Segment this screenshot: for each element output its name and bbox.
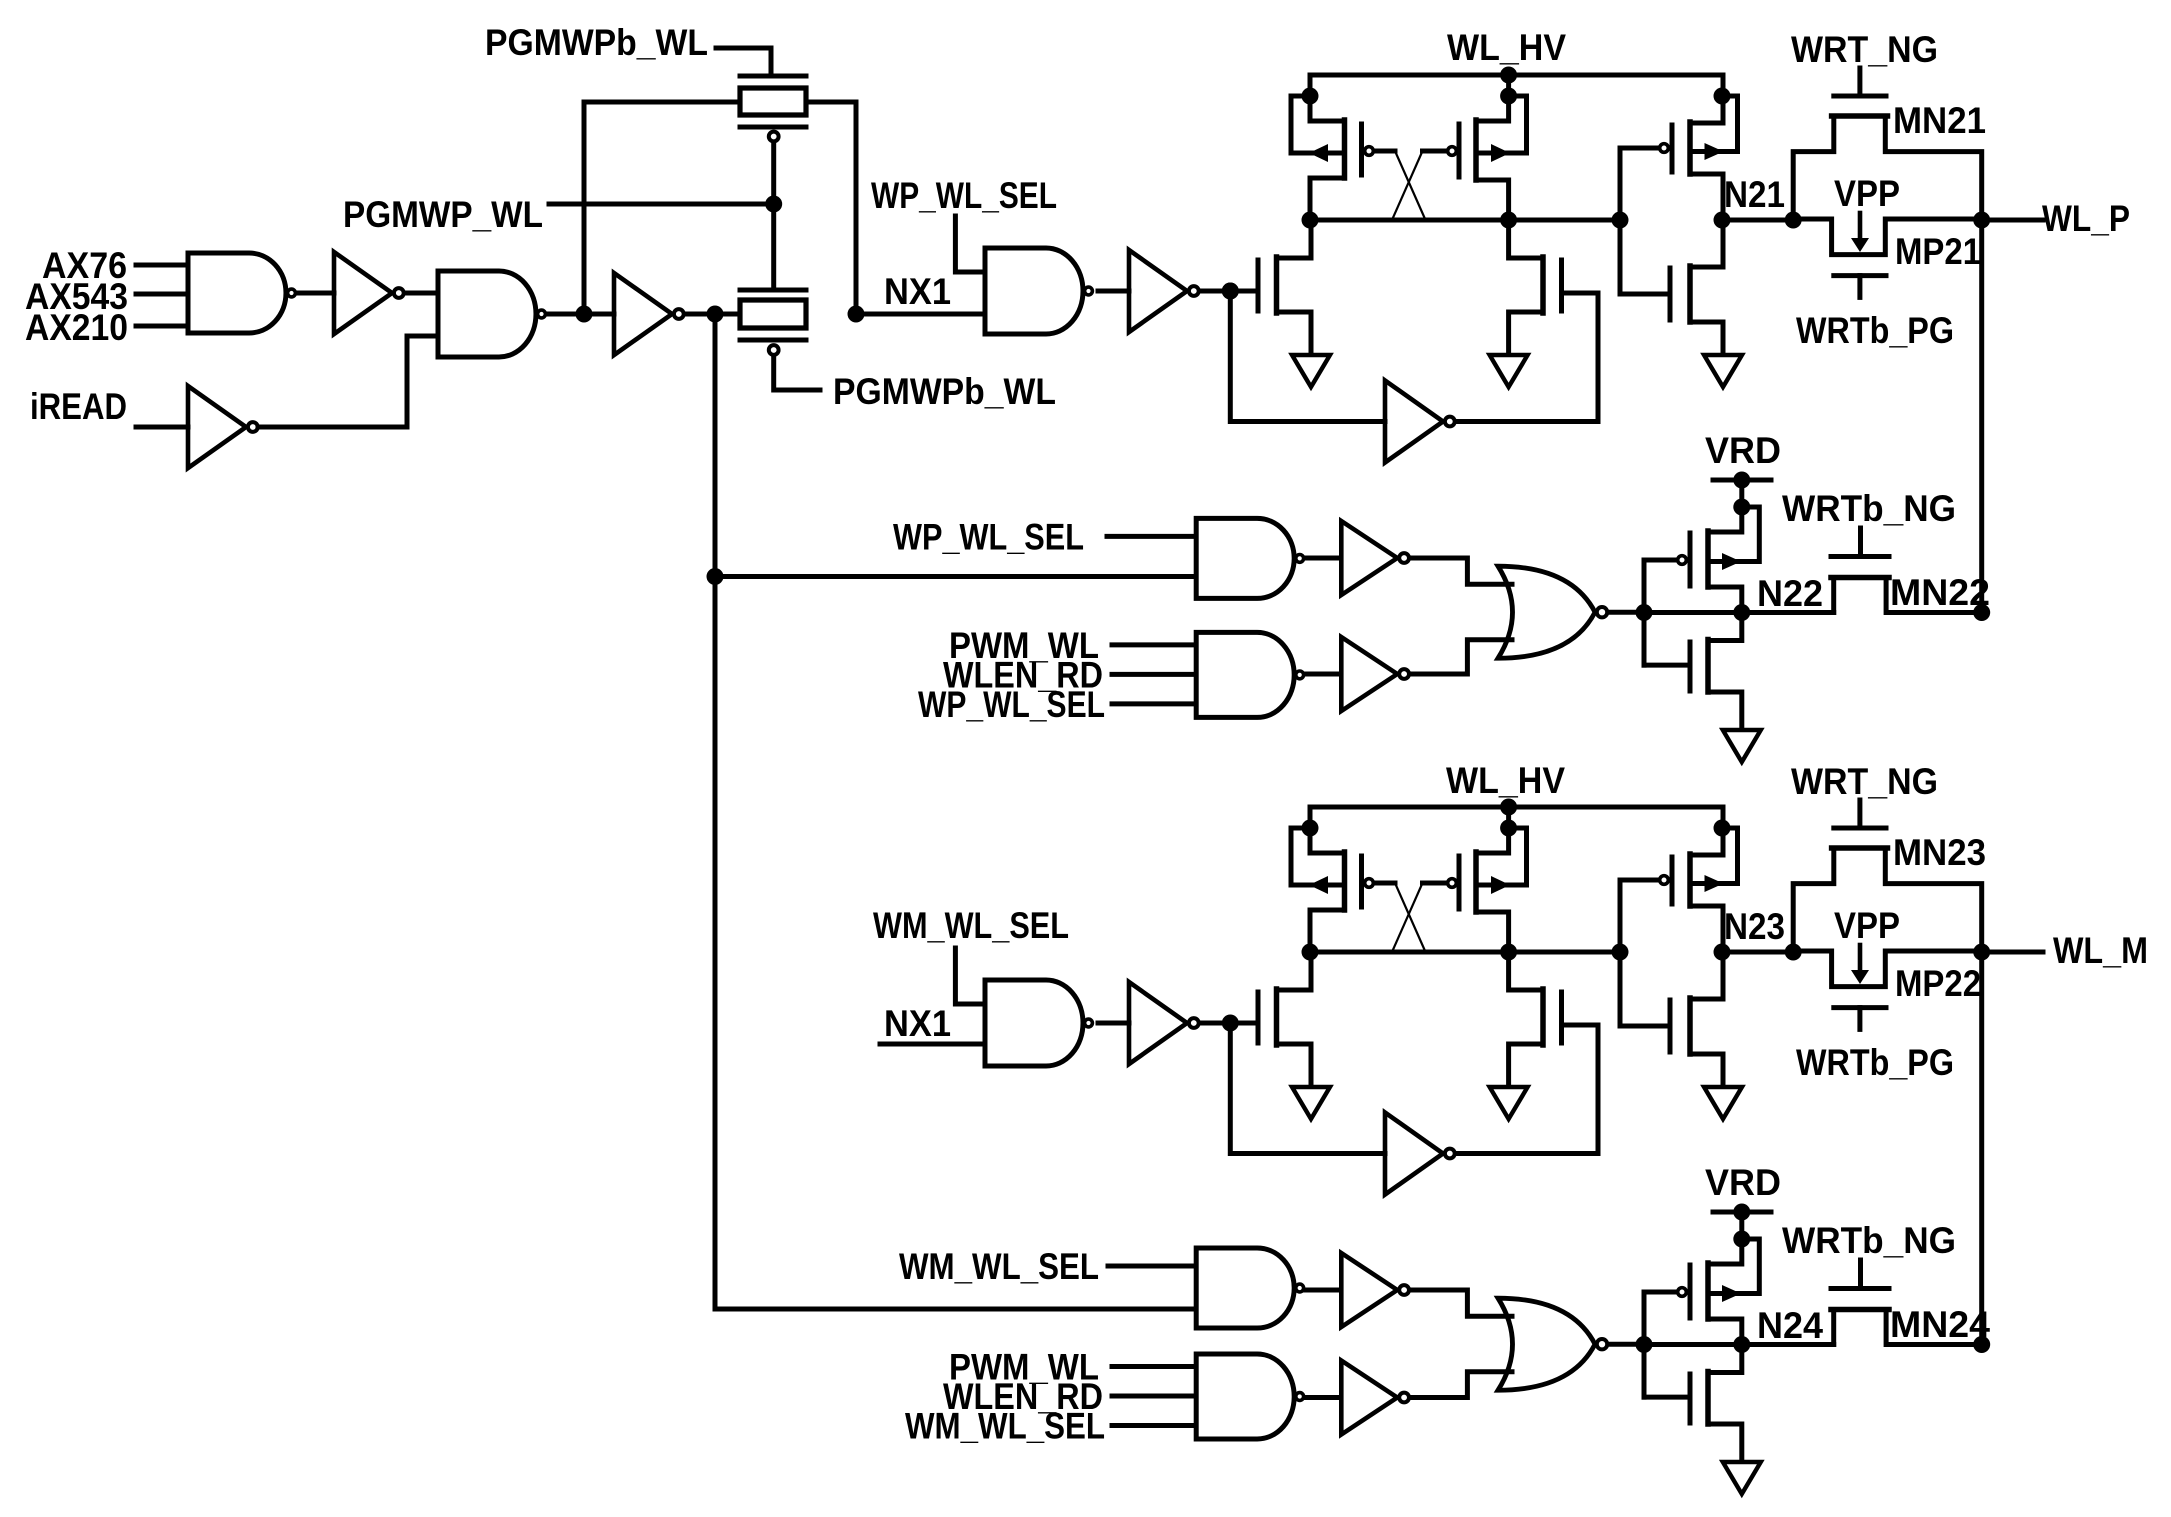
wire WL_HV rail (LS2) <box>1310 805 1723 810</box>
junction node N23 <box>1785 944 1802 961</box>
nand gate U5 <box>1196 518 1294 598</box>
inverter U13 <box>1129 982 1187 1064</box>
wire WL_M output <box>1982 950 2043 955</box>
inverter feedback (LS1) <box>1385 381 1443 463</box>
ground (read driver top) <box>1723 730 1761 762</box>
nand gate U12 <box>1196 1248 1294 1328</box>
svg-text:MN22: MN22 <box>1890 572 1990 613</box>
transistor MN21 <box>1857 68 1862 96</box>
junction node N24 <box>1733 1336 1750 1353</box>
junction node left (LS1) <box>1302 212 1319 229</box>
svg-text:PGMWPb_WL: PGMWPb_WL <box>833 371 1056 412</box>
pmos PR (LS2 level shifter right) <box>1506 807 1511 828</box>
svg-text:MN23: MN23 <box>1893 832 1986 873</box>
junction PL source (LS1) <box>1302 88 1319 105</box>
wire OR out (mid-top) <box>1609 610 1644 615</box>
wire PGMWPb_WL to M1 gate <box>716 48 771 76</box>
wire gate line vertical (LS1) <box>1618 148 1623 294</box>
svg-text:WM_WL_SEL: WM_WL_SEL <box>905 1406 1105 1447</box>
wire inv A out to OR (mid-bottom) <box>1411 1290 1512 1316</box>
wire WP_WL_SEL to NAND B (mid-top) <box>1112 701 1196 706</box>
wire cross-couple left (LS1) <box>1395 151 1426 220</box>
svg-text:VRD: VRD <box>1705 1162 1781 1203</box>
pmos PO (LS2 output inverter) <box>1721 807 1726 855</box>
junction node WL_P <box>1973 212 1990 229</box>
nmos NR (LS1 level shifter right) <box>1540 257 1546 313</box>
svg-text:N24: N24 <box>1757 1305 1823 1346</box>
wire input node down to feedback inverter (LS2) <box>1230 1023 1385 1154</box>
wire node X0 up to pass gate M1 <box>584 102 742 314</box>
svg-text:VRD: VRD <box>1705 430 1781 471</box>
ground (LS1 right nmos) <box>1490 355 1528 387</box>
svg-text:WRTb_NG: WRTb_NG <box>1782 488 1956 529</box>
svg-text:VPP: VPP <box>1834 173 1900 214</box>
pmos read driver (bottom) <box>1711 1239 1759 1294</box>
wire U3 out <box>549 312 614 317</box>
wire U9 out to pass gate M2 <box>685 312 740 317</box>
wire output node line (LS2) <box>1723 950 1793 955</box>
wire U10 out to level shifter <box>1200 289 1256 294</box>
junction node N21 <box>1785 212 1802 229</box>
nand gate U1 (AX76/AX543/AX210) <box>188 253 286 333</box>
wire cross-couple right (LS2) <box>1392 883 1423 952</box>
wire VRD to pmos (top) <box>1739 480 1744 507</box>
pass transistor M1 (gate PGMWPb_WL) <box>740 74 806 79</box>
svg-text:WP_WL_SEL: WP_WL_SEL <box>918 684 1105 725</box>
svg-text:WM_WL_SEL: WM_WL_SEL <box>899 1246 1099 1287</box>
wire U4 out to U10 <box>1098 289 1129 294</box>
junction node WL_M <box>1973 944 1990 961</box>
inverter U2 <box>334 252 392 334</box>
junction MN24 to rail <box>1973 1336 1990 1353</box>
bulk arrow VPP (bottom) <box>1858 945 1863 972</box>
ground (read driver bottom) <box>1723 1462 1761 1494</box>
ground (LS2 output nmos) <box>1704 1087 1742 1119</box>
junction PR source (LS2) <box>1500 820 1517 837</box>
wire AX543 input <box>136 292 188 297</box>
wire NAND A out to inverter (mid-top) <box>1305 556 1341 561</box>
wire WM_WL_SEL to NAND B (mid-bottom) <box>1112 1423 1196 1428</box>
transistor MN22 <box>1858 528 1863 557</box>
wire M1 bulk to node PGMWP_WL <box>771 143 776 204</box>
junction input node (LS2) <box>1222 1015 1239 1032</box>
junction node center (LS1) <box>1500 212 1517 229</box>
ground (LS2 left nmos) <box>1292 1087 1330 1119</box>
wire inv A out to OR (mid-top) <box>1411 558 1512 584</box>
wire VRD to pmos (bottom) <box>1739 1212 1744 1239</box>
wire WLEN_RD to NAND B (mid-bottom) <box>1112 1394 1196 1399</box>
inverter U9 <box>614 273 672 355</box>
junction rail center (LS1) <box>1500 67 1517 84</box>
transistor MN24 <box>1858 1260 1863 1289</box>
wire to NMOS gate (mid-bottom driver) <box>1644 1395 1689 1400</box>
wire U11 out to U13 <box>1098 1021 1129 1026</box>
pmos PL (LS1 level shifter left) <box>1308 75 1313 96</box>
transistor MN23 <box>1857 800 1862 828</box>
wire gate line vertical (mid-top driver) <box>1642 560 1647 665</box>
wire NX1 stub to U11 <box>880 1042 985 1047</box>
wire node N22 line <box>1644 610 1834 615</box>
inverter U15b <box>1341 1361 1397 1435</box>
svg-text:WRT_NG: WRT_NG <box>1791 761 1938 802</box>
svg-text:N23: N23 <box>1724 906 1785 947</box>
wire WL_HV rail (LS1) <box>1310 73 1723 78</box>
transistor MP21 <box>1834 273 1886 278</box>
inverter U6b <box>1341 521 1397 595</box>
wire internal node line (LS2) <box>1310 950 1620 955</box>
svg-text:PGMWPb_WL: PGMWPb_WL <box>485 22 708 63</box>
svg-text:VPP: VPP <box>1834 905 1900 946</box>
junction node NX1 <box>848 306 865 323</box>
bulk arrow VPP (top) <box>1858 213 1863 240</box>
wire node NX1 to U4 <box>856 312 985 317</box>
wire to PMOS gate (mid-top driver) <box>1644 558 1675 563</box>
wire WL_P output <box>1982 218 2043 223</box>
wire NAND A out to inverter (mid-bottom) <box>1305 1288 1341 1293</box>
junction pmos source (top) <box>1733 499 1750 516</box>
wire to PMOS gate (mid-bottom driver) <box>1644 1290 1675 1295</box>
wire gate line vertical (LS2) <box>1618 880 1623 1026</box>
wire to NMOS gate (mid-top driver) <box>1644 663 1689 668</box>
ground (LS2 right nmos) <box>1490 1087 1528 1119</box>
power VRD tap (top) <box>1713 478 1771 483</box>
wire WP_WL_SEL to NAND A (mid-top) <box>1107 534 1196 539</box>
wire internal node line (LS1) <box>1310 218 1620 223</box>
wire iREAD input <box>136 425 188 430</box>
wire rail branch to U5 input <box>715 574 1196 579</box>
junction PO source (LS2) <box>1714 820 1731 837</box>
svg-text:WL_P: WL_P <box>2042 198 2130 239</box>
junction output node (LS2) <box>1714 944 1731 961</box>
svg-text:MP21: MP21 <box>1895 231 1981 272</box>
junction node N22 <box>1733 604 1750 621</box>
junction rail center (LS2) <box>1500 799 1517 816</box>
wire feedback out to NR gate (LS1) <box>1457 293 1599 422</box>
nand gate U3 <box>438 271 536 357</box>
wire cross-couple right (LS1) <box>1392 151 1423 220</box>
junction U10 out <box>1222 283 1239 300</box>
wire cross-couple left (LS2) <box>1395 883 1426 952</box>
wire N23 into MP22 <box>1793 951 1982 987</box>
junction node center (LS2) <box>1500 944 1517 961</box>
inverter U7b <box>1341 637 1397 711</box>
junction node X1 <box>707 306 724 323</box>
wire inv B out to OR (mid-top) <box>1411 640 1512 674</box>
junction VRD (top) <box>1733 472 1750 489</box>
svg-text:NX1: NX1 <box>884 271 951 312</box>
nand gate U14 <box>1196 1354 1294 1439</box>
junction node X0 <box>576 306 593 323</box>
wire NAND B out to inverter (mid-top) <box>1305 672 1341 677</box>
junction OR out (mid-bottom) <box>1636 1336 1653 1353</box>
nmos NR (LS2 level shifter right) <box>1540 989 1546 1045</box>
wire U8 out to U3 lower input <box>258 336 438 427</box>
wire N21 into MP21 <box>1793 219 1982 255</box>
junction PL source (LS2) <box>1302 820 1319 837</box>
wire AX76 input <box>136 263 188 268</box>
wire PGMWP_WL <box>549 202 774 207</box>
svg-text:WRTb_PG: WRTb_PG <box>1796 310 1954 351</box>
nmos NL (LS2 level shifter left) <box>1237 1021 1256 1026</box>
svg-text:WRT_NG: WRT_NG <box>1791 29 1938 70</box>
junction node left (LS2) <box>1302 944 1319 961</box>
wire inv B out to OR (mid-bottom) <box>1411 1372 1512 1398</box>
wire OR out (mid-bottom) <box>1609 1342 1644 1347</box>
junction PR source (LS1) <box>1500 88 1517 105</box>
wire input node down to feedback inverter (LS1) <box>1230 291 1385 422</box>
junction OR out (mid-top) <box>1636 604 1653 621</box>
wire node PGMWP_WL down to M2 gate <box>771 204 776 290</box>
wire long rail from node X1 down <box>713 314 718 1309</box>
nmos NO (LS2 output inverter) <box>1620 1024 1668 1029</box>
junction input node (LS1) <box>1222 283 1239 300</box>
svg-text:WL_HV: WL_HV <box>1446 760 1565 801</box>
nmos NO (LS1 output inverter) <box>1620 292 1668 297</box>
wire U13 out to level shifter 2 <box>1200 1021 1256 1026</box>
svg-text:NX1: NX1 <box>884 1003 951 1044</box>
nmos read driver (bottom) <box>1688 1374 1693 1423</box>
pass transistor M2 (gate PGMWP_WL) <box>740 288 806 293</box>
junction node PGMWP_WL <box>765 196 782 213</box>
junction pmos source (bottom) <box>1733 1231 1750 1248</box>
wire output node line (LS1) <box>1723 218 1793 223</box>
wire node N24 line <box>1644 1342 1834 1347</box>
nor gate G1 <box>1498 566 1595 658</box>
svg-text:MP22: MP22 <box>1895 963 1981 1004</box>
svg-text:N21: N21 <box>1724 174 1785 215</box>
wire WLEN_RD to NAND B (mid-top) <box>1112 672 1196 677</box>
svg-text:iREAD: iREAD <box>30 386 127 427</box>
wire WL_M rail down to MN24 <box>1979 952 1984 1345</box>
ground (LS1 output nmos) <box>1704 355 1742 387</box>
svg-text:WRTb_PG: WRTb_PG <box>1796 1042 1954 1083</box>
nmos NL (LS1 level shifter left) <box>1237 289 1256 294</box>
wire WP_WL_SEL to U4 <box>955 216 985 272</box>
junction node gateline (LS1) <box>1612 212 1629 229</box>
svg-text:MN21: MN21 <box>1893 100 1986 141</box>
ground (LS1 left nmos) <box>1292 355 1330 387</box>
nmos read driver (top) <box>1688 642 1693 691</box>
svg-text:AX210: AX210 <box>25 307 128 348</box>
junction rail to middle branch <box>707 568 724 585</box>
power VRD tap (bottom) <box>1713 1210 1771 1215</box>
transistor MP22 <box>1834 1005 1886 1010</box>
svg-text:WRTb_NG: WRTb_NG <box>1782 1220 1956 1261</box>
wire U1 out to U2 <box>299 291 334 296</box>
nand gate U11 (WM_WL_SEL, NX1) <box>985 980 1083 1066</box>
svg-text:PGMWP_WL: PGMWP_WL <box>343 194 543 235</box>
pmos PO (LS1 output inverter) <box>1721 75 1726 123</box>
inverter U14b <box>1341 1253 1397 1327</box>
nand gate U6 <box>1196 632 1294 717</box>
nor gate G2 <box>1498 1298 1595 1390</box>
wire NAND B out to inverter (mid-bottom) <box>1305 1395 1341 1400</box>
wire WM_WL_SEL to U11 <box>955 948 985 1004</box>
junction node gateline (LS2) <box>1612 944 1629 961</box>
svg-text:N22: N22 <box>1757 573 1823 614</box>
junction PO source (LS1) <box>1714 88 1731 105</box>
inverter U8 (iREAD) <box>188 386 246 468</box>
svg-text:WM_WL_SEL: WM_WL_SEL <box>873 905 1069 946</box>
pmos PL (LS2 level shifter left) <box>1308 807 1313 828</box>
wire WM_WL_SEL to NAND A (mid-bottom) <box>1108 1264 1196 1269</box>
svg-text:WL_M: WL_M <box>2053 930 2148 971</box>
svg-text:WP_WL_SEL: WP_WL_SEL <box>871 175 1057 216</box>
wire PWM_WL to NAND B (mid-top) <box>1112 642 1196 647</box>
junction MN22 to rail <box>1973 604 1990 621</box>
wire gate line vertical (mid-bottom driver) <box>1642 1292 1647 1397</box>
pmos PR (LS1 level shifter right) <box>1506 75 1511 96</box>
wire AX210 input <box>136 324 188 329</box>
wire WL_P rail down to MN22 <box>1979 220 1984 613</box>
wire feedback out to NR gate (LS2) <box>1457 1025 1599 1154</box>
junction output node (LS1) <box>1714 212 1731 229</box>
svg-text:WP_WL_SEL: WP_WL_SEL <box>893 516 1084 557</box>
inverter U10 <box>1129 250 1187 332</box>
nand gate U4 (WP_WL_SEL, NX1) <box>985 248 1083 334</box>
svg-text:WL_HV: WL_HV <box>1447 27 1566 68</box>
wire U2 out to U3 <box>405 291 438 296</box>
wire M1 drain to node NX1 <box>806 102 856 314</box>
wire M2 bulk to PGMWPb_WL label <box>774 357 820 391</box>
inverter feedback (LS2) <box>1385 1113 1443 1195</box>
junction VRD (bottom) <box>1733 1204 1750 1221</box>
wire rail bottom to U12 input <box>715 1307 1196 1312</box>
wire PWM_WL to NAND B (mid-bottom) <box>1112 1364 1196 1369</box>
pmos read driver (top) <box>1711 507 1759 562</box>
